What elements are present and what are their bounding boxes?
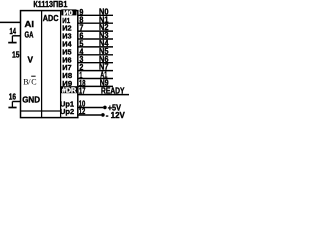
wire N5 xyxy=(78,54,113,56)
svg-text:V: V xyxy=(28,55,34,65)
terminal dot -12V xyxy=(101,113,105,117)
svg-text:C: C xyxy=(31,78,36,87)
svg-text:Up2: Up2 xyxy=(60,107,74,116)
svg-text:15: 15 xyxy=(12,51,20,60)
wire N1 xyxy=(78,22,113,24)
wire +5V xyxy=(78,107,103,109)
wire N4 xyxy=(78,46,113,48)
svg-text:#DR: #DR xyxy=(62,88,76,95)
terminal dot +5V xyxy=(103,106,107,110)
svg-text:14: 14 xyxy=(10,27,17,36)
wire GA to ground xyxy=(12,35,21,37)
IC body U1 outline xyxy=(21,11,78,118)
svg-text:- 12V: - 12V xyxy=(106,111,126,120)
wire N3 xyxy=(78,38,113,40)
svg-text:К1113ПВ1: К1113ПВ1 xyxy=(33,0,67,9)
wire A1 xyxy=(78,78,113,80)
wire GND to ground xyxy=(12,101,21,103)
wire READY xyxy=(78,94,129,96)
field divider right xyxy=(60,11,62,118)
wire N9 xyxy=(78,85,113,87)
svg-text:16: 16 xyxy=(9,93,17,102)
overline over C xyxy=(31,75,35,77)
bottom field divider xyxy=(21,110,61,112)
ground at GA xyxy=(8,36,16,43)
pin B/C label xyxy=(23,78,36,87)
wire N2 xyxy=(78,30,113,32)
svg-text:GA: GA xyxy=(25,30,34,40)
wire N7 xyxy=(78,70,113,72)
pin DR highlighted label xyxy=(61,86,77,93)
svg-text:ADC: ADC xyxy=(43,13,59,23)
wire N0 xyxy=(78,14,113,16)
field divider left xyxy=(41,11,43,118)
pin I0 highlighted label xyxy=(61,9,76,15)
svg-text:READY: READY xyxy=(101,87,125,96)
wire to AI xyxy=(0,21,21,23)
ground at GND xyxy=(8,102,16,108)
wire -12V xyxy=(78,114,101,116)
svg-text:AI: AI xyxy=(25,19,35,29)
svg-text:GND: GND xyxy=(22,95,40,105)
wire N6 xyxy=(78,62,113,64)
